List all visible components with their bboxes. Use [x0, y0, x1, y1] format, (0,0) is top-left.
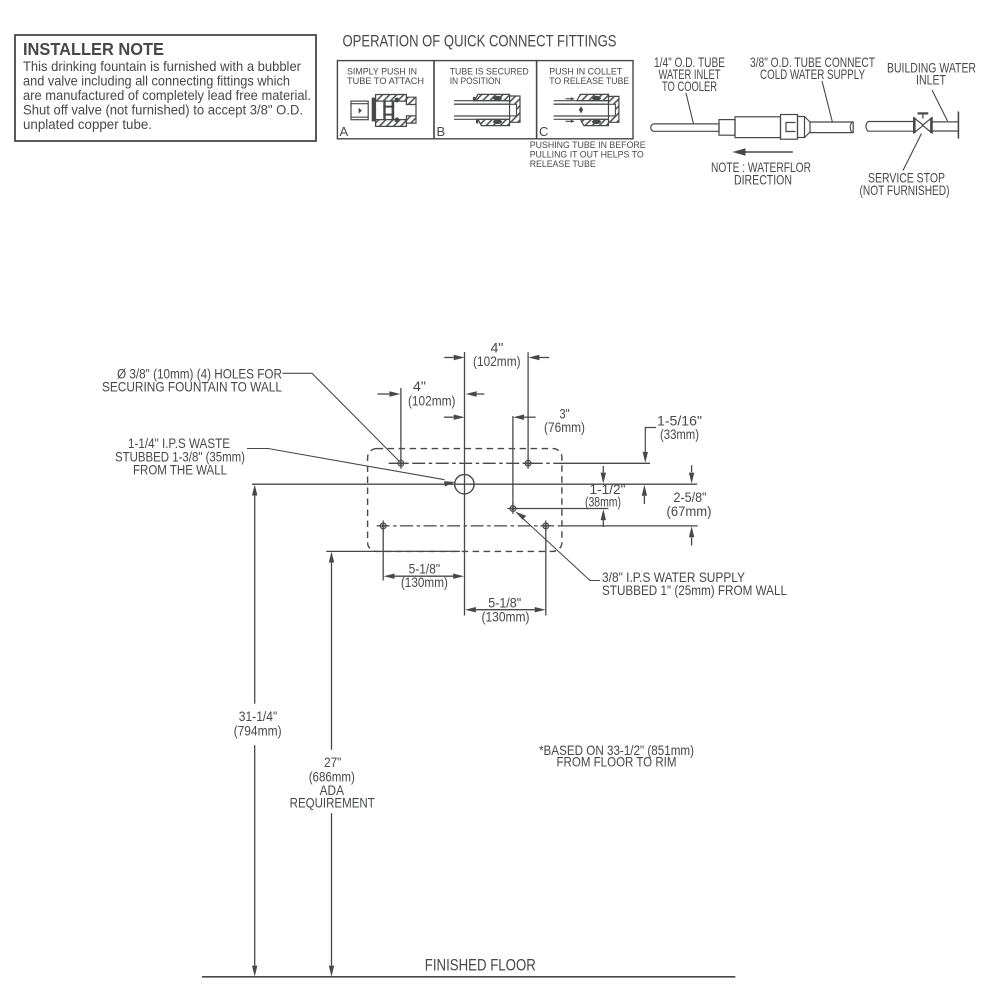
supply hole — [507, 503, 518, 514]
svg-text:OPERATION OF QUICK CONNECT FIT: OPERATION OF QUICK CONNECT FITTINGS — [343, 33, 617, 51]
finished floor line — [202, 976, 735, 978]
svg-text:(67mm): (67mm) — [667, 503, 712, 519]
supply hole line horizontal — [512, 508, 609, 510]
svg-text:TO COOLER: TO COOLER — [662, 78, 717, 94]
tube valve to wall — [932, 122, 958, 131]
centerline vertical — [464, 352, 466, 616]
svg-text:(794mm): (794mm) — [234, 723, 282, 739]
svg-text:FROM THE WALL: FROM THE WALL — [133, 462, 227, 478]
leader water supply — [522, 518, 600, 581]
mounting hole bottom-left — [378, 520, 389, 531]
dim 1-1/2 arrows — [602, 466, 604, 473]
dim 2-5/8 arrows — [691, 465, 693, 472]
note under box C — [530, 140, 646, 170]
dim 1-5/16 bracket and arrows — [645, 428, 656, 453]
centerline top holes dash-dot — [389, 462, 562, 464]
flow direction arrow — [744, 151, 793, 153]
bottom-left hole extension vertical — [382, 526, 384, 581]
waste outlet circle — [455, 475, 474, 494]
dim 5-1/8 left — [395, 575, 454, 577]
supply hole extension vertical — [512, 416, 514, 509]
inline fitting body — [719, 120, 735, 136]
box C — [537, 61, 633, 139]
installer note box — [15, 35, 316, 141]
tube to building supply — [869, 122, 914, 132]
svg-text:unplated copper tube.: unplated copper tube. — [23, 116, 152, 132]
box B — [434, 61, 537, 139]
svg-text:C: C — [539, 124, 548, 139]
mounting hole bottom-right — [540, 520, 551, 531]
svg-text:REQUIREMENT: REQUIREMENT — [290, 794, 375, 810]
dim 27 ADA vertical — [326, 550, 460, 552]
svg-text:(102mm): (102mm) — [473, 353, 521, 369]
building wall line — [957, 112, 959, 139]
svg-text:TO RELEASE TUBE: TO RELEASE TUBE — [549, 76, 629, 86]
dim 4in top (center to right hole) — [444, 357, 453, 359]
svg-text:RELEASE TUBE: RELEASE TUBE — [530, 159, 596, 170]
svg-text:(NOT FURNISHED): (NOT FURNISHED) — [860, 182, 950, 198]
centerline bottom holes dash-dot — [377, 525, 562, 527]
leader 1/4 tube — [686, 93, 694, 124]
box A — [337, 61, 434, 139]
svg-text:INSTALLER NOTE: INSTALLER NOTE — [23, 39, 164, 59]
svg-text:(38mm): (38mm) — [585, 493, 621, 509]
tube 3/8 right of fitting — [810, 122, 853, 133]
svg-text:(102mm): (102mm) — [408, 392, 456, 408]
leader waste — [247, 449, 445, 480]
box C push arrows — [566, 98, 572, 100]
svg-text:COLD WATER SUPPLY: COLD WATER SUPPLY — [760, 66, 865, 82]
svg-text:A: A — [340, 124, 349, 139]
svg-text:(130mm): (130mm) — [482, 608, 530, 624]
svg-text:INLET: INLET — [916, 72, 946, 88]
svg-text:(76mm): (76mm) — [544, 419, 585, 435]
svg-text:SECURING FOUNTAIN TO WALL: SECURING FOUNTAIN TO WALL — [102, 379, 282, 395]
svg-text:STUBBED 1" (25mm) FROM WALL: STUBBED 1" (25mm) FROM WALL — [602, 582, 787, 598]
box C tube and fitting — [554, 100, 609, 102]
waste line horizontal — [252, 483, 697, 485]
svg-text:TUBE TO ATTACH: TUBE TO ATTACH — [347, 76, 424, 86]
mounting hole top-right — [523, 458, 534, 469]
top-left hole extension vertical — [400, 388, 402, 463]
box A tube — [351, 101, 368, 120]
svg-text:DIRECTION: DIRECTION — [734, 172, 792, 188]
dim 4in left (left hole to center) — [377, 393, 389, 395]
svg-text:TUBE IS SECURED: TUBE IS SECURED — [450, 67, 529, 77]
dim 5-1/8 right — [476, 609, 535, 611]
service stop valve — [914, 118, 924, 133]
svg-text:(33mm): (33mm) — [660, 426, 699, 442]
top-right hole extension vertical — [527, 352, 529, 463]
svg-text:B: B — [437, 124, 446, 139]
bottom-right hole extension vertical — [545, 526, 547, 616]
dim 3in (center to supply) — [444, 416, 454, 418]
svg-text:(130mm): (130mm) — [401, 574, 448, 590]
leader 3/8 tube — [822, 81, 833, 123]
svg-text:FROM FLOOR TO RIM: FROM FLOOR TO RIM — [557, 754, 677, 770]
dim 31-1/4 vertical — [254, 495, 256, 703]
box B tube and fitting — [454, 100, 510, 102]
svg-text:PUSH IN COLLET: PUSH IN COLLET — [549, 67, 622, 77]
leader service stop — [903, 134, 922, 171]
leader holes — [283, 373, 400, 461]
mounting hole top-left — [395, 458, 406, 469]
svg-text:FINISHED FLOOR: FINISHED FLOOR — [425, 956, 536, 975]
leader building inlet — [932, 90, 948, 121]
tube 1/4 inlet — [654, 124, 719, 131]
svg-text:IN POSITION: IN POSITION — [450, 76, 501, 86]
fountain outline dashed rect — [368, 449, 562, 552]
box A fitting cross-section — [372, 98, 375, 121]
svg-text:SIMPLY PUSH IN: SIMPLY PUSH IN — [347, 67, 417, 77]
